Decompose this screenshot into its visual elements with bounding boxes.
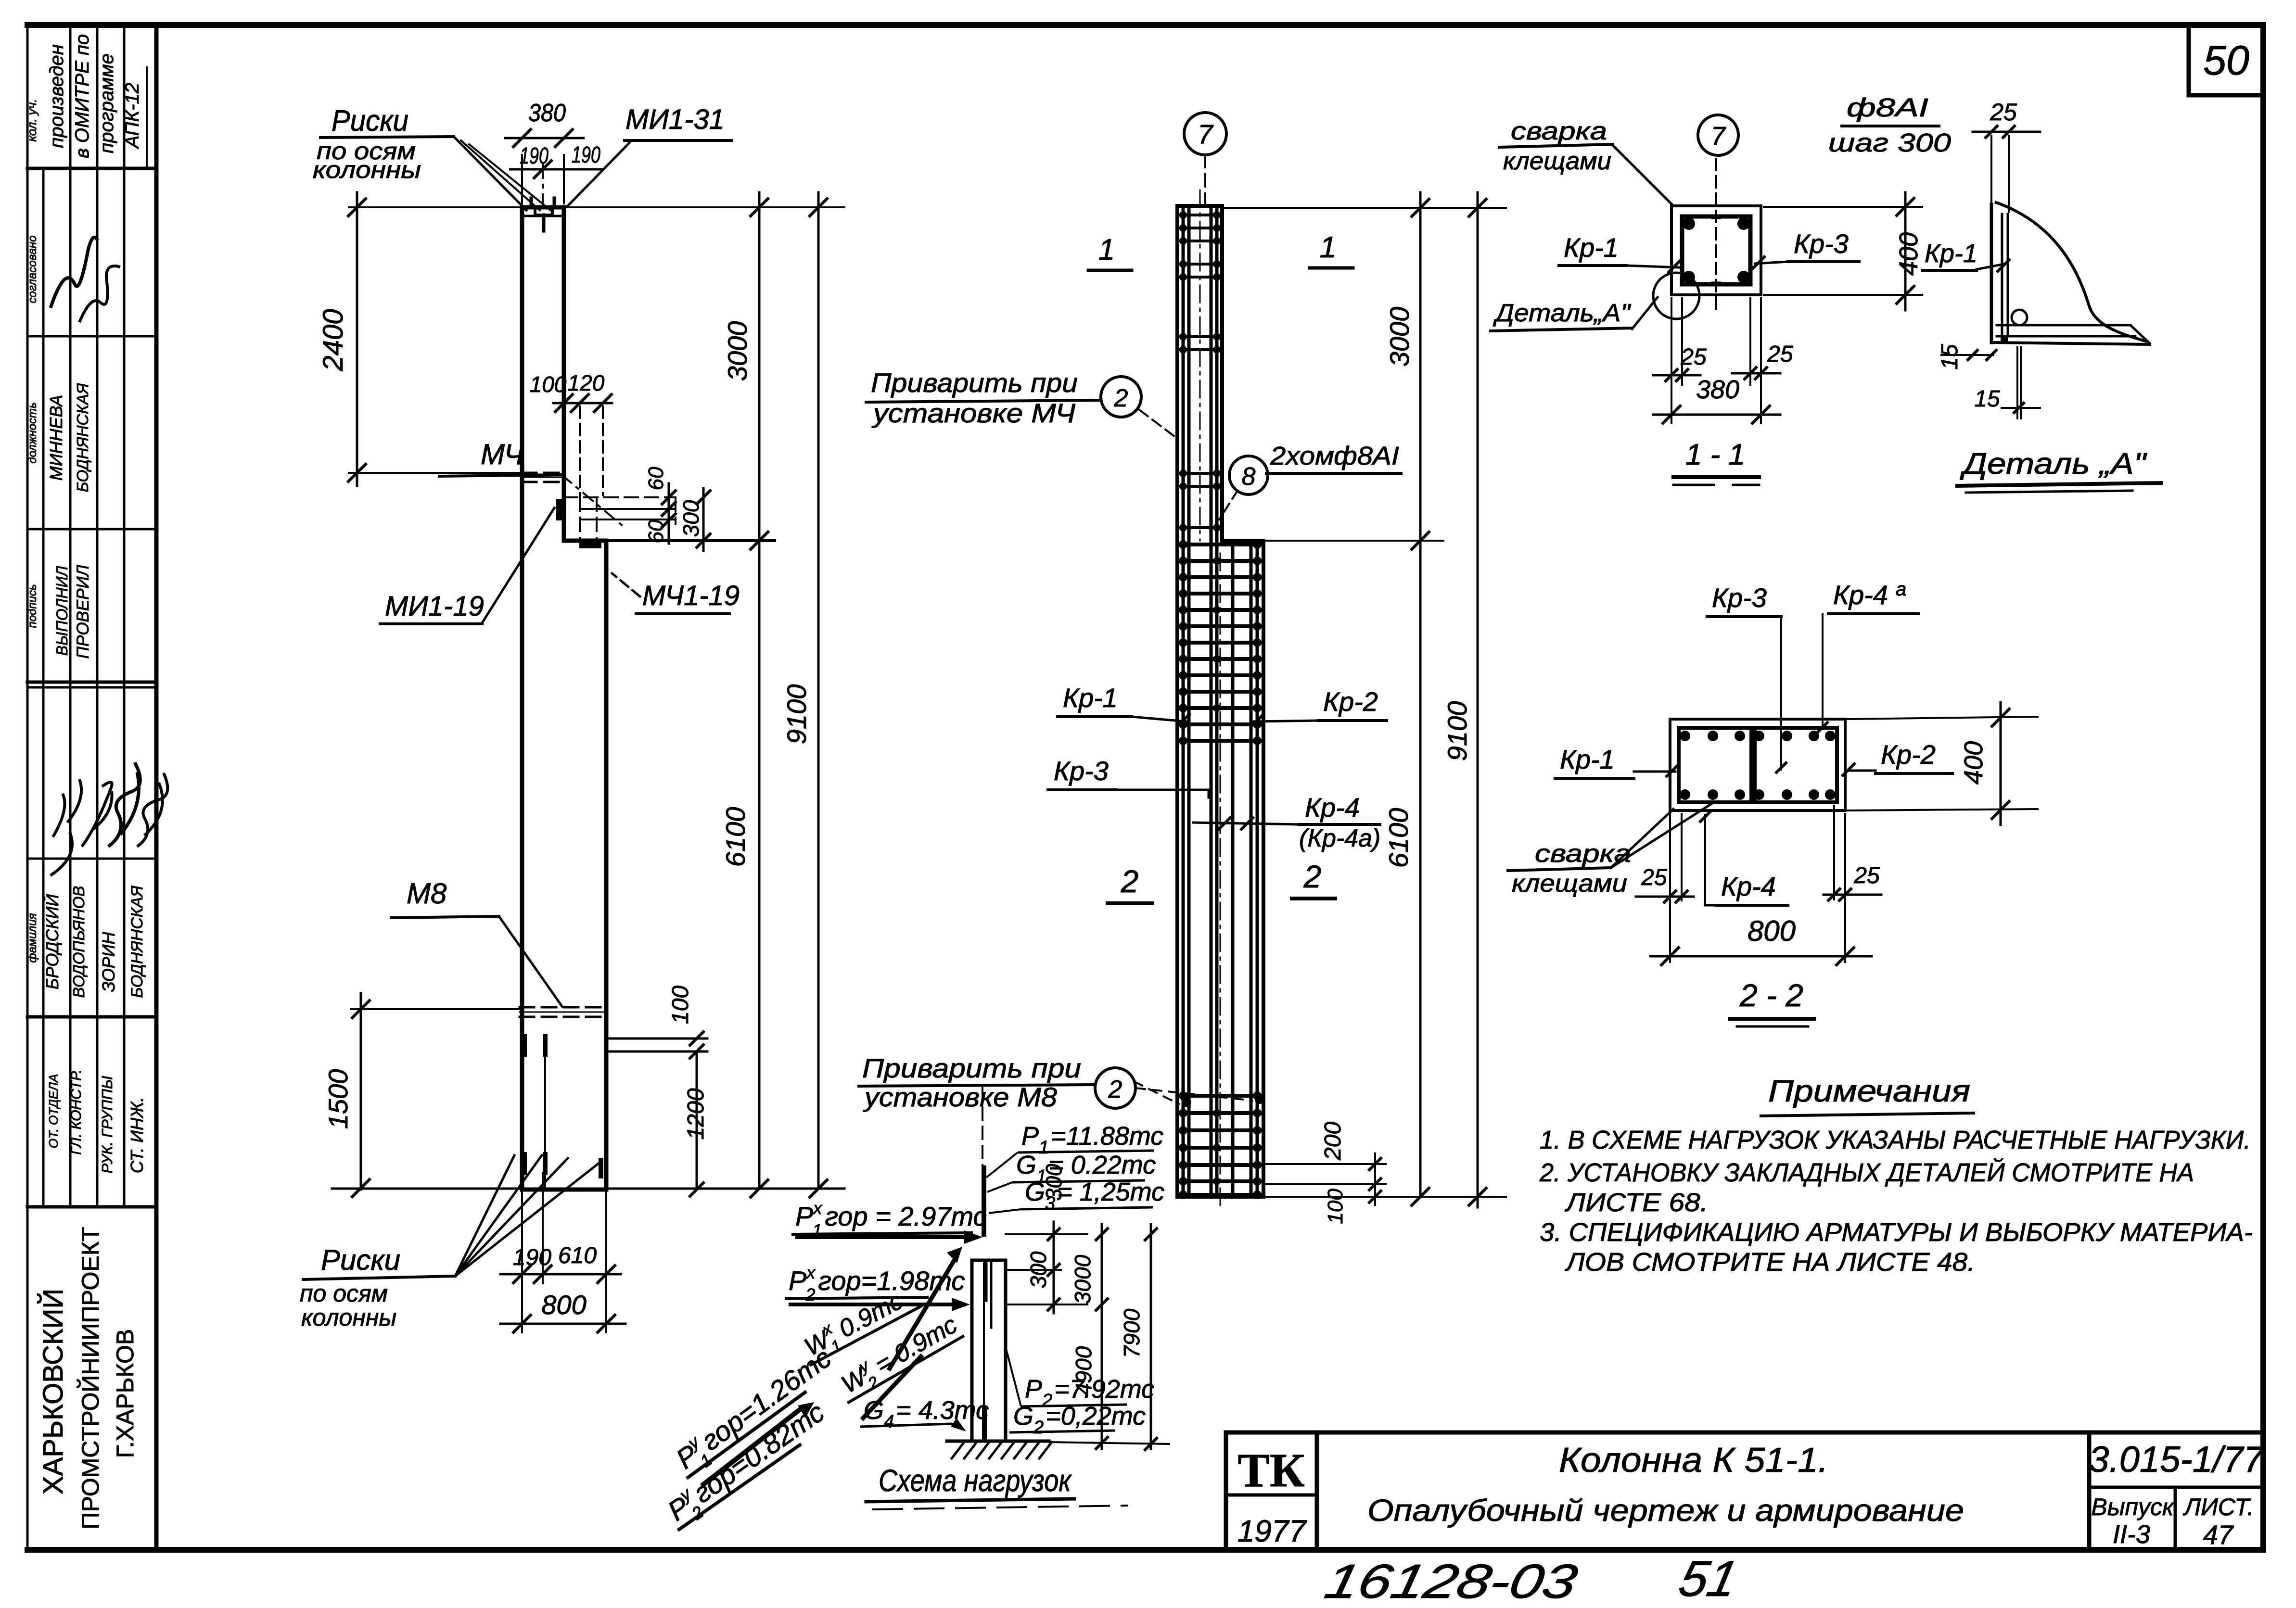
label Kr-3 middle <box>1048 756 1209 798</box>
svg-text:8: 8 <box>1242 463 1256 491</box>
dim 15 left detail A <box>1937 344 1997 370</box>
svg-text:60: 60 <box>644 467 668 490</box>
svg-text:а: а <box>1896 579 1906 600</box>
label Kr-1 section 1-1 <box>1559 232 1681 273</box>
load scheme column <box>972 1260 1006 1441</box>
svg-text:400: 400 <box>1959 741 1988 785</box>
dim 100 right bottom <box>606 986 707 1059</box>
M8 embed dashed <box>520 1007 605 1017</box>
svg-text:2. УСТАНОВКУ ЗАКЛАДНЫХ ДЕТАЛЕЙ: 2. УСТАНОВКУ ЗАКЛАДНЫХ ДЕТАЛЕЙ СМОТРИТЕ … <box>1539 1158 2194 1187</box>
svg-text:25: 25 <box>1853 863 1880 888</box>
svg-text:190: 190 <box>520 143 548 169</box>
dense stirrup mesh zone 2 bottom <box>1179 1091 1262 1199</box>
load P1 application stub <box>982 1168 986 1234</box>
svg-text:1: 1 <box>1098 233 1115 266</box>
svg-text:Примечания: Примечания <box>1768 1074 1970 1108</box>
svg-text:Риски: Риски <box>321 1244 400 1276</box>
stamp signatures middle <box>51 762 167 875</box>
stamp names row 2 <box>26 886 146 998</box>
svg-text:согласовано: согласовано <box>26 235 39 303</box>
dim lines 3000 6100 9100 left view <box>564 192 844 1198</box>
label riski po osyam kolonny bottom <box>300 1155 601 1331</box>
svg-text:ПРОВЕРИЛ: ПРОВЕРИЛ <box>74 564 92 658</box>
svg-text:Г.ХАРЬКОВ: Г.ХАРЬКОВ <box>112 1329 139 1458</box>
stamp company name <box>38 1227 139 1530</box>
svg-text:Кр-1: Кр-1 <box>1564 232 1619 263</box>
reinforcement view: column outline <box>1177 206 1263 1197</box>
label Kr-1 section 2-2 <box>1555 744 1679 778</box>
svg-text:3000: 3000 <box>722 321 753 381</box>
stamp roles <box>46 1069 147 1173</box>
svg-text:200: 200 <box>1320 1122 1346 1161</box>
svg-text:Выпуск: Выпуск <box>2091 1494 2175 1520</box>
svg-text:1. В СХЕМЕ НАГРУЗОК УКАЗАНЫ Р: 1. В СХЕМЕ НАГРУЗОК УКАЗАНЫ РАСЧЕТНЫЕ НА… <box>1540 1126 2251 1154</box>
dim 190 610 bottom <box>500 1173 621 1332</box>
svg-text:шаг 300: шаг 300 <box>1828 128 1951 157</box>
svg-text:Кр-3: Кр-3 <box>1054 756 1109 786</box>
formwork view: column outline <box>522 207 606 1190</box>
stamp text: performed in OMITRE program APK-12 <box>25 34 147 166</box>
svg-text:подпись: подпись <box>26 584 39 628</box>
force arrow P1gor <box>791 1198 987 1244</box>
svg-text:ЗОРИН: ЗОРИН <box>99 931 118 992</box>
svg-text:800: 800 <box>541 1290 586 1320</box>
svg-text:Кр-4: Кр-4 <box>1833 580 1888 610</box>
svg-text:БОДНЯНСКАЯ: БОДНЯНСКАЯ <box>74 383 91 492</box>
svg-text:3000: 3000 <box>1384 307 1415 367</box>
label Kr-4 (Kr-4a) middle <box>1193 792 1380 852</box>
note 3 <box>1540 1218 2253 1277</box>
svg-text:Опалубочный чертеж и армиро: Опалубочный чертеж и армирование <box>1367 1493 1964 1528</box>
svg-text:по осям: по осям <box>300 1280 388 1307</box>
svg-text:400: 400 <box>1894 232 1923 276</box>
baseline <box>332 1188 844 1190</box>
detail A circle mark <box>1491 273 1699 331</box>
svg-text:Кр-3: Кр-3 <box>1794 228 1849 259</box>
svg-text:клещами: клещами <box>1503 147 1611 175</box>
dim 380 top <box>504 99 585 204</box>
vypusk II-3 <box>2091 1494 2175 1549</box>
svg-text:15: 15 <box>1937 344 1963 370</box>
doc number 3.015-1/77 <box>2089 1439 2265 1480</box>
svg-text:Деталь „А": Деталь „А" <box>1960 447 2147 481</box>
TK logo <box>1237 1443 1307 1548</box>
dim 800 bottom <box>500 1290 625 1333</box>
stamp signatures top <box>26 235 120 322</box>
label MCh1-19 right <box>612 573 740 614</box>
force arrow P2gor <box>785 1263 970 1311</box>
svg-text:25: 25 <box>1641 865 1667 890</box>
label MI1-31 <box>568 104 731 206</box>
stamp names row 1 <box>26 383 91 492</box>
svg-text:М8: М8 <box>407 877 447 910</box>
MCh embed dashed lines <box>522 473 564 482</box>
sheet number box 50 <box>2189 25 2263 95</box>
bottom axis risk marks <box>524 1037 601 1190</box>
stamp row: proveril <box>26 564 92 658</box>
stirrups upper narrow zone <box>1179 211 1221 532</box>
svg-text:7: 7 <box>1198 119 1213 149</box>
note 2 <box>1539 1158 2194 1217</box>
svg-text:300: 300 <box>678 500 703 537</box>
label privarit pri ustanovke MCh <box>866 367 1175 437</box>
svg-text:25: 25 <box>1767 342 1793 367</box>
svg-text:610: 610 <box>558 1243 597 1268</box>
svg-text:Приварить при: Приварить при <box>862 1053 1081 1083</box>
svg-text:СТ. ИНЖ.: СТ. ИНЖ. <box>127 1097 147 1173</box>
svg-text:300: 300 <box>1041 1164 1066 1201</box>
svg-text:Кр-3: Кр-3 <box>1712 582 1767 613</box>
svg-text:3. СПЕЦИФИКАЦИЮ АРМАТУРЫ И ВЫ: 3. СПЕЦИФИКАЦИЮ АРМАТУРЫ И ВЫБОРКУ МАТЕР… <box>1540 1218 2253 1247</box>
svg-text:7: 7 <box>1711 122 1726 151</box>
title 1-1 <box>1673 438 1759 485</box>
longitudinal bars Kr-1 Kr-2 <box>1183 190 1257 1207</box>
svg-text:ТК: ТК <box>1237 1443 1304 1497</box>
diagonal label P2gor-y 0.82 <box>658 1394 835 1536</box>
svg-text:АПК-12: АПК-12 <box>122 83 143 149</box>
rebar dots section 2-2 <box>1680 731 1836 800</box>
label P1 G1 G3 <box>986 1122 1164 1214</box>
svg-text:6100: 6100 <box>1383 808 1414 868</box>
label MI1-19 left <box>380 508 554 624</box>
svg-text:300: 300 <box>1026 1251 1051 1288</box>
ground hatch <box>947 1441 1052 1458</box>
svg-text:клещами: клещами <box>1512 870 1627 898</box>
section mark 1 right <box>1310 231 1353 268</box>
svg-text:МИ1-19: МИ1-19 <box>385 591 484 622</box>
dims 200 100 bottom middle <box>1266 1122 1386 1224</box>
label P2 G2 <box>1005 1343 1154 1438</box>
svg-text:ХАРЬКОВСКИЙ: ХАРЬКОВСКИЙ <box>38 1289 69 1494</box>
svg-text:Кр-1: Кр-1 <box>1063 683 1118 713</box>
svg-text:ОТ. ОТДЕЛА: ОТ. ОТДЕЛА <box>46 1074 61 1149</box>
label f8AI shag 300 <box>1828 93 1951 157</box>
detail A drawing <box>1991 202 2150 344</box>
svg-text:47: 47 <box>2203 1519 2234 1550</box>
label Kr-4a section 2-2 <box>1817 579 1919 733</box>
svg-text:РУК. ГРУППЫ: РУК. ГРУППЫ <box>99 1076 115 1173</box>
svg-text:2: 2 <box>1108 1076 1122 1103</box>
title schema nagruzok <box>866 1463 1127 1509</box>
svg-text:ВОДОПЬЯНОВ: ВОДОПЬЯНОВ <box>70 886 88 998</box>
svg-text:9100: 9100 <box>781 684 812 745</box>
svg-text:Схема нагрузок: Схема нагрузок <box>879 1463 1072 1498</box>
label M8 <box>391 877 562 1006</box>
wind arrow W2 <box>831 1307 966 1418</box>
svg-text:25: 25 <box>1680 344 1707 370</box>
section mark 2 right <box>1292 859 1335 899</box>
svg-text:ВЫПОЛНИЛ: ВЫПОЛНИЛ <box>53 566 71 656</box>
svg-text:БОДНЯНСКАЯ: БОДНЯНСКАЯ <box>128 886 146 998</box>
svg-text:1 - 1: 1 - 1 <box>1685 438 1745 471</box>
svg-text:2: 2 <box>1121 863 1139 899</box>
diagonal label P1gor-y 1.26 <box>666 1340 842 1484</box>
svg-text:16128-03: 16128-03 <box>1320 1555 1582 1608</box>
svg-text:190: 190 <box>572 142 600 168</box>
title detail A <box>1957 447 2161 493</box>
label Kr-3 section 1-1 <box>1752 228 1859 269</box>
svg-text:МИННЕВА: МИННЕВА <box>46 395 66 481</box>
svg-text:кол. уч.: кол. уч. <box>25 99 39 142</box>
corbel embed detail <box>556 497 775 548</box>
dim 190 190 <box>509 142 604 179</box>
svg-text:2400: 2400 <box>318 309 349 371</box>
label Kr-1 middle <box>1058 683 1190 727</box>
svg-text:фамилия: фамилия <box>26 913 39 962</box>
svg-text:(Кр-4а): (Кр-4а) <box>1299 824 1380 852</box>
svg-text:25: 25 <box>1990 99 2017 126</box>
svg-text:колонны: колонны <box>301 1304 396 1331</box>
position circle 7 <box>1184 113 1226 204</box>
axis mark top <box>542 164 544 204</box>
title 2-2 <box>1730 977 1814 1026</box>
dim 60 60 300 corbel <box>644 467 769 551</box>
dim 100 120 corbel <box>530 370 612 495</box>
svg-text:Кр-2: Кр-2 <box>1881 739 1936 770</box>
svg-text:Кр-4: Кр-4 <box>1305 792 1360 823</box>
position circle 7 section <box>1698 115 1738 155</box>
svg-text:100: 100 <box>668 986 693 1024</box>
label MCh <box>439 438 625 528</box>
dim 400 section 1-1 <box>1764 192 1923 310</box>
list 47 <box>2183 1494 2254 1550</box>
dashed axis to load scheme <box>982 1088 983 1168</box>
section 1-1 outline <box>1671 159 1761 312</box>
dim 25 detail A <box>1973 99 2040 212</box>
handwritten archive number <box>1320 1551 1742 1608</box>
svg-text:Приварить при: Приварить при <box>871 367 1078 398</box>
svg-text:4900: 4900 <box>1071 1346 1096 1395</box>
svg-text:ф8АI: ф8АI <box>1847 93 1928 122</box>
title text kolonna K51-1 <box>1367 1441 1964 1528</box>
svg-text:3.015-1/77: 3.015-1/77 <box>2089 1439 2265 1480</box>
position circle 8 with 2 clamps label <box>1219 442 1401 519</box>
dim 1500 left bottom <box>323 993 522 1198</box>
notes title primechaniya <box>1761 1074 1974 1116</box>
left stamp block grid <box>27 25 156 1207</box>
dim 15 bottom detail A <box>1974 347 2040 418</box>
svg-text:100: 100 <box>1324 1189 1347 1224</box>
svg-text:программе: программе <box>96 53 117 153</box>
label riski po osyam kolonny top <box>313 104 552 212</box>
dims 25 25 380 section 1-1 <box>1653 298 1793 424</box>
svg-text:Деталь„А": Деталь„А" <box>1493 299 1632 327</box>
svg-text:60: 60 <box>644 519 668 543</box>
svg-text:190: 190 <box>513 1245 551 1270</box>
svg-text:800: 800 <box>1748 915 1796 947</box>
svg-text:2: 2 <box>1303 859 1322 894</box>
svg-text:2 - 2: 2 - 2 <box>1739 977 1803 1013</box>
svg-text:120: 120 <box>568 370 605 395</box>
label svarka kleshchami 2-2 <box>1508 802 1714 898</box>
dim 2400 left <box>318 192 522 486</box>
section mark 1 left <box>1088 233 1132 270</box>
svg-text:ЛОВ СМОТРИТЕ НА ЛИСТЕ 48.: ЛОВ СМОТРИТЕ НА ЛИСТЕ 48. <box>1565 1248 1975 1277</box>
label Kr-2 middle <box>1250 686 1387 728</box>
svg-text:ГЛ. КОНСТР.: ГЛ. КОНСТР. <box>68 1069 84 1155</box>
svg-text:1500: 1500 <box>323 1069 353 1129</box>
dim 400 section 2-2 <box>1848 702 2038 825</box>
label Kr-2 section 2-2 <box>1842 739 1952 776</box>
svg-text:Кр-2: Кр-2 <box>1323 686 1378 717</box>
svg-text:должность: должность <box>26 402 39 463</box>
dim 800 section 2-2 <box>1650 915 1872 966</box>
svg-text:Кр-1: Кр-1 <box>1560 744 1615 774</box>
svg-text:ПРОМСТРОЙНИИПРОЕКТ: ПРОМСТРОЙНИИПРОЕКТ <box>77 1227 104 1530</box>
svg-text:сварка: сварка <box>1511 117 1607 145</box>
svg-text:БРОДСКИЙ: БРОДСКИЙ <box>42 894 62 990</box>
svg-text:МЧ1-19: МЧ1-19 <box>642 580 740 611</box>
svg-text:МИ1-31: МИ1-31 <box>625 104 725 135</box>
svg-text:1200: 1200 <box>683 1088 709 1140</box>
dims 25 25 section 2-2 <box>1636 806 1881 962</box>
svg-text:Риски: Риски <box>332 104 408 138</box>
weld dots for M8 <box>1182 1094 1264 1107</box>
svg-text:51: 51 <box>1674 1551 1743 1607</box>
svg-text:ЛИСТЕ 68.: ЛИСТЕ 68. <box>1565 1188 1708 1217</box>
svg-text:колонны: колонны <box>313 156 421 183</box>
note 1 <box>1540 1126 2251 1154</box>
svg-text:Кр-4: Кр-4 <box>1721 871 1776 901</box>
svg-text:3000: 3000 <box>1070 1254 1095 1304</box>
svg-text:МЧ: МЧ <box>481 438 524 470</box>
svg-text:1: 1 <box>1320 231 1336 264</box>
svg-text:2: 2 <box>1114 384 1128 412</box>
dims 3000 6100 9100 middle view <box>1225 192 1506 1207</box>
label G4 <box>860 1396 989 1432</box>
svg-text:II-3: II-3 <box>2113 1520 2150 1549</box>
dense stirrup mesh zone 1 <box>1179 540 1262 745</box>
label svarka kleshchami 1-1 <box>1499 117 1673 206</box>
svg-text:ЛИСТ.: ЛИСТ. <box>2183 1494 2254 1520</box>
svg-text:380: 380 <box>528 99 566 127</box>
svg-text:произведен: произведен <box>46 44 67 148</box>
load scheme dims 300 300 3000 4900 7900 <box>1006 1164 1169 1451</box>
label Kr-3 section 2-2 <box>1707 582 1787 773</box>
label privarit pri ustanovke M8 <box>859 1053 1253 1112</box>
section 2-2 outline <box>1670 719 1845 810</box>
label Kr-1 detail A <box>1922 239 2010 272</box>
top embed plate MI1-31 <box>531 198 554 231</box>
svg-text:в ОМИТРЕ по: в ОМИТРЕ по <box>72 34 93 158</box>
dim 1200 right bottom <box>683 1051 709 1197</box>
svg-text:Колонна К 51-1.: Колонна К 51-1. <box>1559 1441 1828 1480</box>
svg-text:1977: 1977 <box>1237 1514 1307 1548</box>
label Kr-4 section 2-2 <box>1699 811 1788 905</box>
title block grid <box>1226 1432 2263 1550</box>
svg-text:380: 380 <box>1696 375 1739 404</box>
svg-text:50: 50 <box>2203 38 2249 84</box>
svg-text:Кр-1: Кр-1 <box>1925 239 1977 268</box>
svg-text:15: 15 <box>1974 386 2000 412</box>
svg-text:7900: 7900 <box>1119 1308 1144 1358</box>
wind arrow W1 <box>794 1247 962 1370</box>
svg-text:9100: 9100 <box>1442 701 1472 761</box>
svg-text:100: 100 <box>530 372 567 397</box>
svg-text:2хомф8АI: 2хомф8АI <box>1270 442 1399 470</box>
svg-text:6100: 6100 <box>720 807 751 867</box>
section mark 2 left <box>1108 863 1152 903</box>
